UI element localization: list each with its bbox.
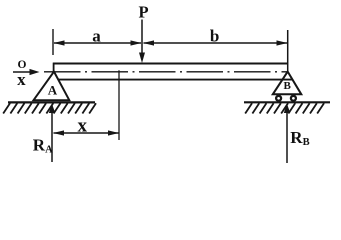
ground hatching right bbox=[245, 103, 324, 113]
svg-text:P: P bbox=[138, 3, 148, 22]
dimension line b bbox=[144, 42, 288, 44]
ground line left bbox=[8, 101, 95, 103]
beam bottom edge bbox=[59, 79, 294, 81]
beam top edge bbox=[53, 63, 288, 65]
svg-text:x: x bbox=[17, 70, 26, 89]
svg-text:x: x bbox=[77, 116, 87, 137]
origin O axis arrow bbox=[13, 71, 34, 73]
svg-text:b: b bbox=[210, 26, 219, 45]
ground hatching left bbox=[3, 103, 96, 113]
svg-text:B: B bbox=[284, 80, 292, 92]
beam left end edge bbox=[53, 63, 55, 72]
x position marker line bbox=[118, 70, 120, 140]
reaction arrow RB bbox=[286, 110, 288, 163]
svg-text:a: a bbox=[92, 27, 101, 46]
ground line right bbox=[244, 101, 330, 103]
support A triangle bbox=[34, 72, 70, 101]
beam centerline (dash-dot) bbox=[44, 71, 287, 73]
support B triangle bbox=[273, 72, 302, 95]
dimension tick right bbox=[287, 30, 289, 72]
roller left bbox=[276, 96, 281, 101]
dimension tick left bbox=[52, 29, 54, 55]
reaction arrow RA bbox=[51, 110, 53, 162]
roller right bbox=[291, 96, 296, 101]
dimension line x bbox=[54, 132, 119, 134]
dimension line a bbox=[54, 42, 141, 44]
force P arrow bbox=[141, 20, 143, 54]
svg-text:A: A bbox=[48, 82, 58, 97]
